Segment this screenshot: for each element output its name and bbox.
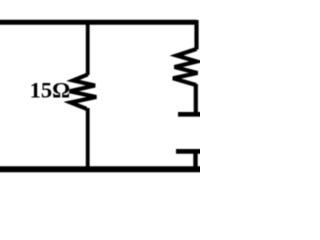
svg-text:15Ω: 15Ω	[30, 78, 71, 103]
